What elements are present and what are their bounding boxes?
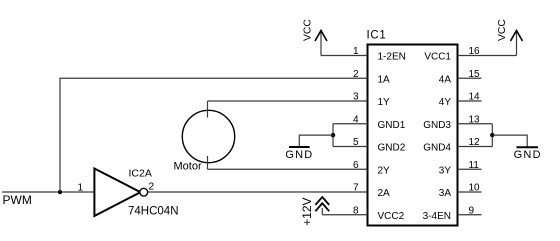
- svg-text:GND: GND: [514, 149, 542, 161]
- node left GND junction: [331, 133, 335, 137]
- node PWM junction: [58, 190, 62, 194]
- svg-text:2: 2: [149, 182, 155, 193]
- svg-text:Motor: Motor: [174, 161, 202, 173]
- svg-text:9: 9: [469, 205, 475, 216]
- wire PWM input: [2, 191, 94, 193]
- wire +12V to pin 8 (VCC2): [322, 214, 367, 216]
- svg-text:GND2: GND2: [378, 143, 406, 154]
- motor M (circle body): [182, 110, 234, 162]
- wire pin 13 (GND3) stub: [458, 123, 493, 125]
- power VCC right arrow: [497, 19, 522, 56]
- svg-text:2: 2: [353, 69, 359, 80]
- inverter output bubble: [140, 188, 148, 196]
- svg-text:3Y: 3Y: [439, 165, 452, 176]
- svg-text:4: 4: [353, 114, 359, 125]
- svg-text:3: 3: [353, 92, 359, 103]
- svg-text:4A: 4A: [439, 74, 452, 85]
- svg-text:IC2A: IC2A: [129, 168, 152, 180]
- svg-text:16: 16: [469, 46, 481, 57]
- svg-text:7: 7: [353, 183, 359, 194]
- wire inverter output to pin 7 (2A): [148, 191, 368, 193]
- svg-text:15: 15: [469, 69, 481, 80]
- wire VCC to pin 1 (1-2EN): [321, 55, 368, 57]
- svg-text:1: 1: [353, 46, 359, 57]
- wire pin 14 (4Y) stub: [458, 100, 482, 102]
- svg-text:GND4: GND4: [423, 143, 451, 154]
- svg-text:8: 8: [353, 205, 359, 216]
- wire pin 11 (3Y) stub: [458, 168, 482, 170]
- svg-text:6: 6: [353, 160, 359, 171]
- motor top terminal: [207, 101, 209, 118]
- svg-text:1Y: 1Y: [378, 97, 391, 108]
- wire pin 12 (GND4) stub: [458, 146, 493, 148]
- svg-text:2A: 2A: [378, 188, 391, 199]
- svg-text:5: 5: [353, 137, 359, 148]
- wire bracket joining pins 13 and 12: [491, 124, 493, 147]
- svg-text:1-2EN: 1-2EN: [378, 52, 406, 63]
- svg-text:+12V: +12V: [300, 197, 314, 225]
- svg-text:VCC2: VCC2: [378, 211, 405, 222]
- svg-text:GND: GND: [285, 149, 313, 161]
- wire motor top to pin 3 (1Y): [208, 100, 368, 102]
- ground GND left: [285, 147, 313, 161]
- wire pin 4 (GND1) stub: [333, 123, 368, 125]
- inverter gate IC2A (74HC04 triangle): [94, 169, 140, 217]
- wire bracket joining pins 4 and 5: [332, 124, 334, 147]
- svg-text:1A: 1A: [378, 74, 391, 85]
- power VCC left arrow: [303, 19, 328, 56]
- svg-text:1: 1: [77, 183, 83, 194]
- svg-text:IC1: IC1: [367, 30, 387, 42]
- svg-text:11: 11: [469, 160, 480, 171]
- svg-text:GND1: GND1: [378, 120, 406, 131]
- wire pin 5 (GND2) stub: [333, 146, 368, 148]
- svg-text:74HC04N: 74HC04N: [128, 206, 179, 218]
- svg-text:2Y: 2Y: [378, 165, 391, 176]
- wire pin 16 (VCC1) to VCC: [458, 55, 517, 57]
- svg-text:10: 10: [469, 183, 481, 194]
- motor bottom terminal: [207, 156, 209, 169]
- svg-text:3A: 3A: [439, 188, 452, 199]
- wire motor bottom to pin 6 (2Y): [208, 168, 368, 170]
- wire junction to right GND: [492, 135, 527, 147]
- wire pin 10 (3A) stub: [458, 191, 482, 193]
- wire junction up to pin 2 (1A): [60, 78, 368, 192]
- svg-text:12: 12: [469, 137, 481, 148]
- power +12V symbol: [300, 197, 329, 226]
- svg-text:13: 13: [469, 114, 481, 125]
- svg-text:VCC1: VCC1: [424, 52, 451, 63]
- svg-text:4Y: 4Y: [439, 97, 452, 108]
- svg-text:VCC: VCC: [497, 19, 508, 41]
- svg-text:3-4EN: 3-4EN: [423, 211, 451, 222]
- svg-text:GND3: GND3: [423, 120, 451, 131]
- wire pin 15 (4A) stub: [458, 77, 482, 79]
- svg-text:VCC: VCC: [303, 19, 314, 41]
- svg-text:PWM: PWM: [3, 193, 32, 207]
- svg-text:14: 14: [469, 92, 481, 103]
- IC U1 box: [368, 45, 458, 226]
- wire junction to left GND: [299, 135, 333, 147]
- node right GND junction: [490, 133, 494, 137]
- wire pin 9 (3-4EN) stub: [458, 214, 482, 216]
- ground GND right: [514, 147, 542, 161]
